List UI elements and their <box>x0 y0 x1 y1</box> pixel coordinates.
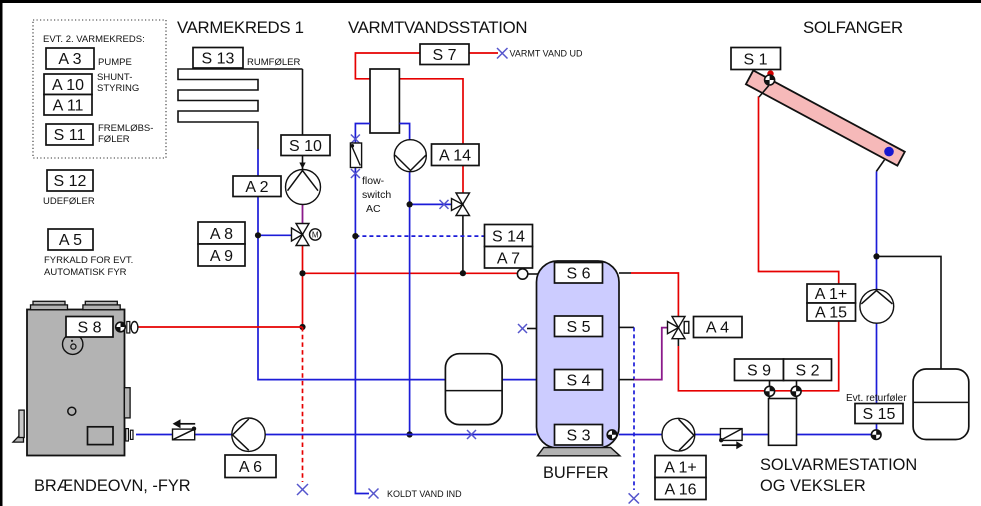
pump A16 <box>662 418 695 451</box>
svg-text:RUMFØLER: RUMFØLER <box>247 57 300 68</box>
wire boiler S8 red <box>137 326 303 328</box>
boiler body <box>27 310 125 456</box>
sensor S8 quadrant <box>115 321 126 332</box>
junction boiler supply <box>299 324 305 330</box>
wire A4 down red <box>678 96 838 390</box>
wire collector blue link <box>876 160 884 172</box>
X end of dashed red <box>297 484 308 495</box>
X below flow switch <box>351 169 360 178</box>
label flow-switch AC <box>362 175 391 215</box>
box A11 <box>44 95 92 116</box>
junction expansion <box>873 253 879 259</box>
wire VV exchanger to AC valve red <box>399 79 463 193</box>
sensor S15 quadrant <box>871 429 882 440</box>
box S14 <box>485 225 533 247</box>
boiler left handle <box>13 410 24 442</box>
svg-text:A 14: A 14 <box>439 148 471 165</box>
valve AC <box>452 193 470 216</box>
box A15 <box>807 303 856 322</box>
svg-text:A 11: A 11 <box>53 98 84 115</box>
box A16 <box>655 478 706 500</box>
wire buffer to solar station blue <box>619 434 871 436</box>
connector circle on red header <box>517 269 527 279</box>
collector panel <box>746 70 905 165</box>
mixing valve A2 <box>292 224 321 246</box>
svg-text:EVT. 2. VARMEKREDS:: EVT. 2. VARMEKREDS: <box>43 34 145 45</box>
flow arrow into pump <box>299 163 305 169</box>
frame top border <box>0 0 981 3</box>
svg-text:BRÆNDEOVN, -FYR: BRÆNDEOVN, -FYR <box>34 477 191 495</box>
box A14 <box>432 144 480 166</box>
boiler bottom fitting <box>126 429 133 441</box>
X at AC valve <box>440 200 449 209</box>
svg-text:BUFFER: BUFFER <box>543 464 609 482</box>
frame left border <box>0 0 3 506</box>
svg-text:S 7: S 7 <box>432 47 456 64</box>
box S3 <box>555 425 603 446</box>
wire blue to mixing valve <box>258 234 292 236</box>
svg-text:S 2: S 2 <box>795 363 819 380</box>
junction pump line to buffer return <box>407 431 413 437</box>
wire cold water inlet blue <box>355 124 370 144</box>
wire S2 sensor drop <box>796 381 798 400</box>
stub S4 right black <box>619 379 634 381</box>
svg-text:flow-: flow- <box>362 175 385 187</box>
pump P2 varmtvand <box>394 140 426 172</box>
wire boiler return blue main <box>136 434 537 436</box>
svg-text:A 8: A 8 <box>210 226 233 243</box>
svg-text:VARMEKREDS 1: VARMEKREDS 1 <box>177 18 304 37</box>
svg-text:S 5: S 5 <box>566 319 590 336</box>
svg-text:UDEFØLER: UDEFØLER <box>43 196 95 207</box>
box S12 <box>47 170 93 191</box>
svg-text:KOLDT VAND IND: KOLDT VAND IND <box>387 489 462 499</box>
box A3 <box>46 48 94 69</box>
boiler small circle <box>68 407 76 415</box>
label FREMLOBS-FOLER <box>98 123 153 145</box>
box S7 <box>420 44 469 65</box>
boiler top fitting <box>127 322 138 334</box>
X above flow switch <box>351 135 360 144</box>
sensor S9 quadrant <box>764 386 776 398</box>
junction red header left <box>299 270 305 276</box>
valve A4 <box>668 317 689 339</box>
svg-text:AC: AC <box>366 203 381 215</box>
X koldt vand ind <box>369 489 379 499</box>
svg-text:A 4: A 4 <box>706 320 729 337</box>
svg-text:STYRING: STYRING <box>97 83 139 94</box>
wire VV pump line blue <box>399 124 409 141</box>
collector blue dot <box>884 147 894 157</box>
box A1+ station <box>655 456 706 478</box>
box A10 <box>44 74 92 95</box>
X below vessel <box>467 430 476 439</box>
svg-text:A 6: A 6 <box>239 459 262 476</box>
wire VV red S7 loop <box>355 53 420 79</box>
svg-text:FREMLØBS-: FREMLØBS- <box>98 123 153 134</box>
wire S7 to varmt vand ud <box>469 52 498 54</box>
svg-text:S 1: S 1 <box>743 52 767 69</box>
sensor S2 quadrant <box>790 386 802 398</box>
heat exchanger solar <box>769 399 797 446</box>
svg-text:VARMTVANDSSTATION: VARMTVANDSSTATION <box>348 18 527 37</box>
svg-text:SOLFANGER: SOLFANGER <box>803 18 903 37</box>
check valve boiler <box>173 419 197 440</box>
svg-text:S 6: S 6 <box>566 266 590 283</box>
buffer tank <box>537 261 620 448</box>
wire mixing valve down red <box>302 246 304 328</box>
legend dashed box <box>33 20 166 158</box>
wire red header to buffer S6 <box>303 272 518 274</box>
svg-text:M: M <box>312 231 319 240</box>
label SHUNT-STYRING <box>97 72 139 94</box>
svg-text:Evt. returføler: Evt. returføler <box>846 393 907 404</box>
junction pump to valve <box>407 201 413 207</box>
svg-text:S 4: S 4 <box>566 373 590 390</box>
svg-text:A 3: A 3 <box>58 51 81 68</box>
stub S6 right black <box>619 272 631 274</box>
expansion vessel left <box>445 354 502 425</box>
box A4 <box>694 317 743 338</box>
svg-text:A 16: A 16 <box>664 482 696 499</box>
stub S5 right black <box>619 326 634 328</box>
wire expansion vessel black <box>877 256 942 370</box>
wire AC valve down black <box>462 216 464 274</box>
wire dashed blue S14 <box>355 235 484 237</box>
svg-text:S 9: S 9 <box>747 363 771 380</box>
svg-text:FØLER: FØLER <box>98 134 130 145</box>
svg-text:S 15: S 15 <box>863 406 896 423</box>
svg-text:A 10: A 10 <box>52 77 84 94</box>
box S13 <box>193 48 243 69</box>
box A6 <box>225 455 276 478</box>
svg-text:S 12: S 12 <box>54 173 87 190</box>
box S2 <box>784 359 832 381</box>
collector red dot <box>767 70 773 76</box>
svg-text:OG VEKSLER: OG VEKSLER <box>760 477 866 495</box>
box S8 <box>66 317 113 338</box>
box A2 <box>233 176 281 197</box>
wire S6 to valve A4 red <box>631 273 678 316</box>
check valve solar <box>719 429 743 450</box>
svg-text:PUMPE: PUMPE <box>98 57 132 68</box>
pump A6 <box>232 418 265 451</box>
svg-text:S 3: S 3 <box>566 428 590 445</box>
junction AC drain on red header <box>460 270 466 276</box>
wire collector red link <box>759 86 769 98</box>
boiler door <box>88 427 114 445</box>
sensor S1 quadrant <box>764 74 776 86</box>
svg-text:A 5: A 5 <box>59 232 82 249</box>
radiator VARMEKREDS serpentine <box>178 69 303 150</box>
pump A15 solar <box>860 289 894 323</box>
box S9 <box>735 359 784 381</box>
wire solar blue pump to sensor <box>876 323 878 431</box>
wire S10 to pump <box>302 155 304 170</box>
boiler right tab <box>124 388 130 418</box>
wire pump to mixing valve purple <box>302 204 304 225</box>
stub S5 left <box>527 328 537 330</box>
svg-text:A 7: A 7 <box>497 251 520 268</box>
svg-text:S 14: S 14 <box>492 229 525 246</box>
svg-text:A 1+: A 1+ <box>815 286 847 303</box>
box A1+ solar <box>807 284 856 303</box>
X varmt vand ud <box>497 48 508 59</box>
box S11 <box>46 124 93 145</box>
heat exchanger VV <box>370 69 399 133</box>
box A5 <box>48 229 93 250</box>
boiler chimney stub left <box>31 301 68 309</box>
X end dashed blue <box>629 493 639 503</box>
wire dashed red down <box>302 327 304 482</box>
box A9 <box>198 244 245 266</box>
svg-text:S 13: S 13 <box>202 51 235 68</box>
svg-text:A 1+: A 1+ <box>664 460 696 477</box>
wire S4 to valve A4 purple <box>634 328 668 380</box>
svg-text:SOLVARMESTATION: SOLVARMESTATION <box>760 456 917 474</box>
junction on return at valve branch <box>255 232 261 238</box>
box S10 <box>281 135 330 156</box>
wire radiator supply down to S10 <box>302 69 304 136</box>
junction dashed on cold line <box>352 233 358 239</box>
wire VV pump down blue <box>409 171 411 435</box>
box S6 <box>555 263 603 284</box>
wire dashed blue S5 down <box>633 327 635 490</box>
svg-text:S 10: S 10 <box>289 138 322 155</box>
svg-text:SHUNT-: SHUNT- <box>97 72 132 83</box>
boiler chimney stub right <box>83 301 120 309</box>
wire cold water main down to koldt vand ind <box>355 167 369 494</box>
box A7 <box>485 247 533 269</box>
box S4 <box>555 370 603 391</box>
box S5 <box>555 316 603 337</box>
svg-text:A 2: A 2 <box>245 179 268 196</box>
X at S5 <box>518 324 527 333</box>
svg-text:A 15: A 15 <box>815 305 847 322</box>
boiler burner circle <box>62 334 82 354</box>
wire solar blue down <box>876 172 878 291</box>
expansion vessel right <box>913 369 969 440</box>
svg-text:VARMT VAND UD: VARMT VAND UD <box>510 49 584 59</box>
svg-text:FYRKALD FOR EVT.: FYRKALD FOR EVT. <box>44 255 133 266</box>
wire circle to tank black <box>528 273 538 275</box>
flow switch <box>350 143 361 168</box>
wire radiator return blue down and to buffer S4 <box>258 149 537 380</box>
pump P1 varmekreds <box>286 170 321 205</box>
svg-text:AUTOMATISK FYR: AUTOMATISK FYR <box>44 267 127 278</box>
box A8 <box>198 222 245 244</box>
buffer base trapezoid <box>537 448 620 456</box>
sensor S3 right quadrant <box>606 429 617 440</box>
label FYRKALD FOR EVT. <box>44 255 133 278</box>
svg-text:S 11: S 11 <box>54 127 86 144</box>
wire S9 sensor drop <box>769 381 771 400</box>
svg-text:switch: switch <box>362 189 391 201</box>
svg-text:S 8: S 8 <box>77 320 101 337</box>
wire AC valve feed blue <box>410 203 451 205</box>
svg-text:A 9: A 9 <box>210 248 233 265</box>
box S15 <box>855 404 903 424</box>
box S1 <box>731 48 781 70</box>
wire A4 valve bottom stub <box>677 338 679 346</box>
